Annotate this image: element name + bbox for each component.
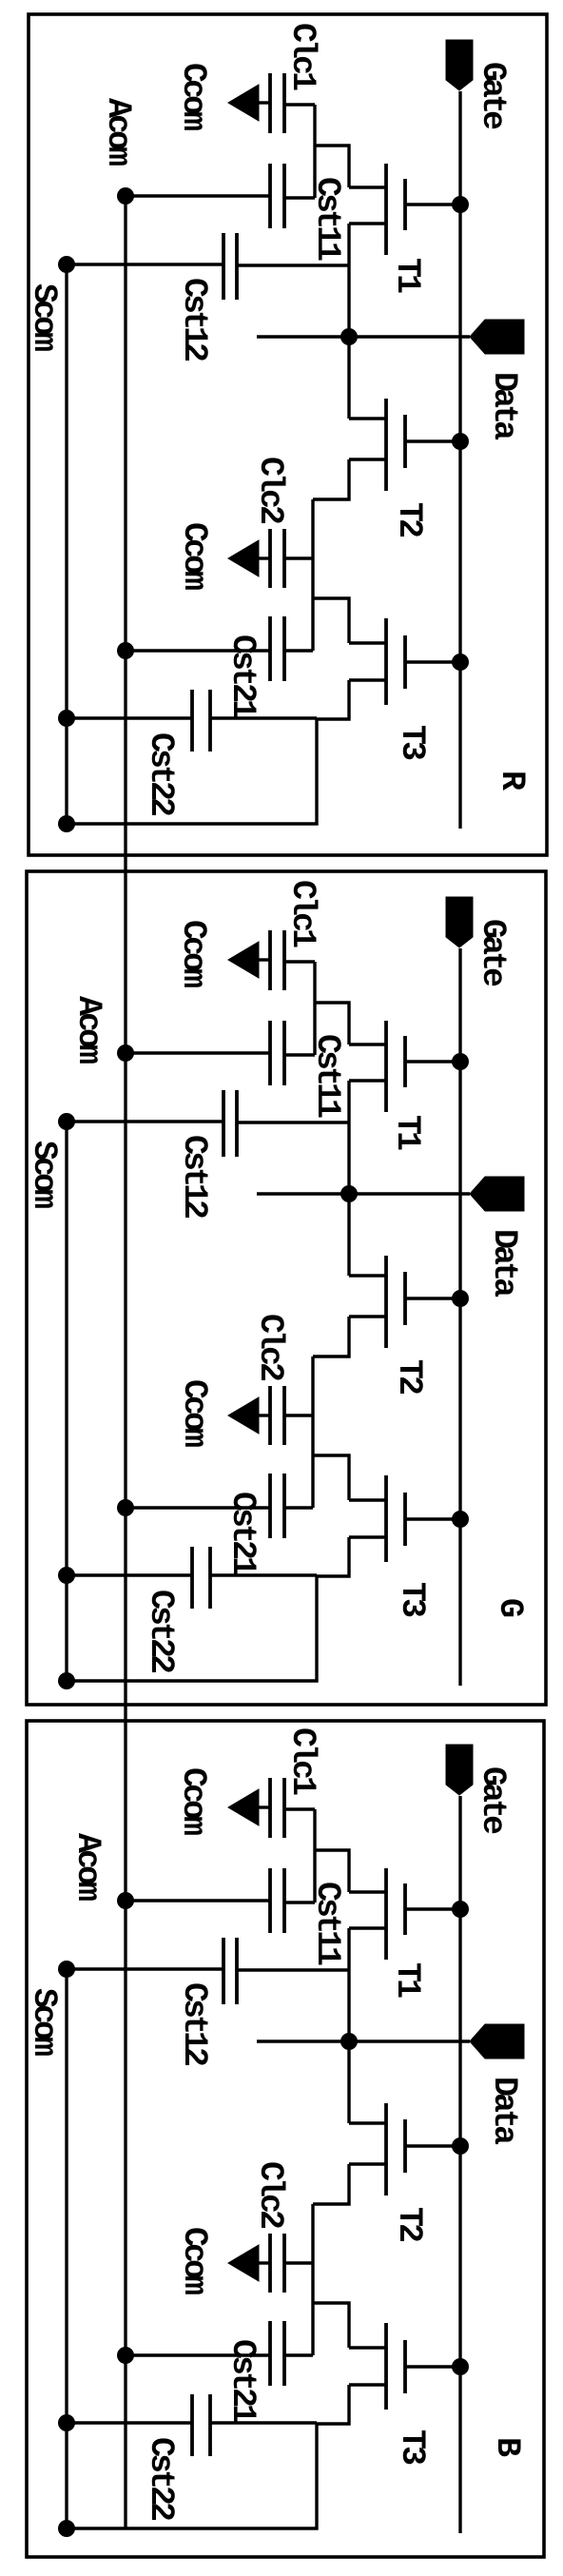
transistor T2 (block G): drain stub (349, 1315, 386, 1317)
svg-text:Ccom: Ccom (175, 522, 213, 590)
node: T3 gate junction dot (block B) (452, 2358, 469, 2375)
capacitor Cst22 (block B) (208, 2394, 212, 2456)
svg-text:Cst21: Cst21 (223, 634, 262, 718)
wire: Scom rail block R (65, 264, 68, 824)
node: T3 gate junction dot (block G) (452, 1511, 469, 1528)
svg-text:Ccom: Ccom (174, 63, 212, 130)
transistor T2 (block R): gate electrode bar (403, 415, 407, 468)
transistor T3 (block B): channel bar (384, 2323, 388, 2410)
Ccom arrow under Clc2 (block R) (228, 540, 259, 576)
svg-text:Cst11: Cst11 (308, 1034, 346, 1118)
node: T3-Scom dot (block B) (58, 2520, 75, 2537)
svg-text:Cst11: Cst11 (308, 1882, 346, 1965)
transistor T2 (block B): gate lead (405, 2144, 460, 2147)
transistor T2 (block B): drain stub (349, 2162, 386, 2165)
wire: stub to Cst21 (block G) (284, 1506, 313, 1509)
transistor T3 (block B): gate electrode bar (403, 2340, 407, 2393)
node: Cst21-Acom dot (block B) (117, 2347, 134, 2364)
svg-text:Gate: Gate (474, 1766, 512, 1834)
transistor T2 (block G): gate electrode bar (403, 1272, 407, 1325)
wire: stub to Clc2 (block B) (284, 2261, 313, 2264)
wire: stub to Cst11 (block R) (284, 196, 315, 199)
capacitor Clc1 (block R) (282, 73, 286, 133)
wire: Data line (block B) (257, 2039, 470, 2042)
node: Cst12-Scom dot (block R) (58, 256, 75, 273)
svg-text:T3: T3 (393, 2430, 431, 2465)
transistor T1 (block G): gate electrode bar (403, 1036, 407, 1087)
wire: pixel node 1 rail (block G) (313, 962, 316, 1055)
node: T1 gate junction dot (block G) (452, 1053, 469, 1070)
wire: stub to Clc1 (block G) (284, 960, 315, 963)
svg-text:Clc2: Clc2 (251, 457, 289, 523)
wire: Cst21 to Acom (block G) (126, 1506, 270, 1509)
wire: bus to Cst12 (block R) (237, 263, 349, 266)
transistor T3 (block R): drain stub (349, 678, 386, 681)
wire: Gate line (block G) (458, 948, 461, 1686)
capacitor Cst11 (block R) (282, 164, 286, 228)
wire: T3 drain to Cst22 (block B) (210, 2421, 317, 2424)
wire: T3 drain to Cst22 (block R) (210, 716, 317, 719)
svg-text:Data: Data (485, 1229, 523, 1298)
wire: T3 source to pixel node 2 (block R) (313, 598, 349, 643)
wire: bus to Cst12 (block B) (237, 1968, 349, 1971)
wire: Clc1 to Ccom arrow (block B) (258, 1805, 270, 1808)
wire: Cst12 to Scom (block G) (67, 1120, 223, 1122)
wire: pixel node 2 trunk (block G) (311, 1356, 314, 1508)
wire: T1 source to pixel node 1 (block B) (315, 1850, 349, 1892)
svg-text:B: B (488, 2437, 526, 2457)
svg-text:Cst12: Cst12 (175, 278, 213, 361)
Data input tag (block R) (470, 320, 524, 354)
Ccom arrow under Clc1 (block R) (228, 85, 259, 121)
wire: Cst22 to Scom (block G) (67, 1573, 192, 1576)
wire: stub to Clc1 (block B) (284, 1807, 315, 1810)
svg-text:T1: T1 (388, 258, 426, 293)
wire: T1 drain to T2 source bus (block G) (347, 1081, 350, 1276)
capacitor Cst12 (block R) (235, 233, 239, 300)
wire: T3 drain to Cst22 (block G) (210, 1573, 317, 1576)
svg-text:R: R (493, 771, 531, 790)
transistor T3 (block B): drain stub (349, 2383, 386, 2386)
node: Cst11-Acom dot (block B) (117, 1892, 134, 1909)
wire: Gate line (block R) (458, 91, 461, 829)
wire: Data line (block G) (257, 1192, 470, 1195)
node: Data junction dot (block R) (340, 328, 358, 345)
wire: Data line (block R) (257, 335, 470, 338)
capacitor Cst12 (block B) (235, 1938, 239, 2004)
transistor T3 (block G): drain stub (349, 1535, 386, 1538)
capacitor Cst11 (block B) (282, 1868, 286, 1933)
transistor T2 (block B): channel bar (384, 2103, 388, 2195)
wire: T2 drain to pixel node 2 (block B) (313, 2164, 349, 2204)
transistor T3 (block B): source stub (349, 2346, 386, 2349)
node: Cst21-Acom dot (block G) (117, 1499, 134, 1516)
wire: pixel node 2 trunk (block B) (311, 2204, 314, 2355)
transistor T1 (block B): source stub (349, 1890, 386, 1893)
wire: pixel node 2 trunk (block R) (311, 499, 314, 651)
wire: stub to Clc2 (block R) (284, 556, 313, 559)
capacitor Cst21 (block R) (282, 616, 286, 681)
wire: Cst11 to Acom (block B) (126, 1899, 270, 1902)
node: T1 gate junction dot (block R) (452, 196, 469, 213)
wire: bus to Cst12 (block G) (237, 1121, 349, 1123)
svg-text:Scom: Scom (25, 1988, 63, 2056)
wire: T3 drain to Scom (block B) (67, 2385, 349, 2528)
wire: Clc2 to Ccom arrow (block B) (258, 2261, 270, 2264)
transistor T3 (block R): channel bar (384, 618, 388, 705)
wire: T1 drain to T2 source bus (block B) (347, 1928, 350, 2123)
svg-text:Gate: Gate (474, 919, 512, 986)
wire: T1 source to pixel node 1 (block R) (315, 146, 349, 187)
svg-text:Acom: Acom (99, 98, 137, 166)
svg-text:Gate: Gate (474, 62, 512, 129)
transistor T3 (block R): gate lead (405, 660, 460, 663)
wire: Cst11 to Acom (block G) (126, 1051, 270, 1054)
svg-text:T1: T1 (388, 1115, 426, 1150)
transistor T1 (block R): gate electrode bar (403, 179, 407, 230)
svg-text:Acom: Acom (69, 996, 107, 1064)
capacitor Cst11 (block G) (282, 1021, 286, 1085)
transistor T1 (block R): channel bar (384, 164, 388, 255)
transistor T3 (block G): channel bar (384, 1475, 388, 1562)
Data input tag (block B) (470, 2024, 524, 2059)
capacitor Cst21 (block G) (282, 1473, 286, 1538)
wire: stub to Clc2 (block G) (284, 1414, 313, 1416)
wire: T2 drain to pixel node 2 (block R) (313, 459, 349, 499)
transistor T1 (block G): source stub (349, 1043, 386, 1045)
transistor T2 (block G): source stub (349, 1274, 386, 1277)
Ccom arrow under Clc2 (block B) (228, 2245, 259, 2281)
transistor T1 (block R): drain stub (349, 222, 386, 224)
Gate input tag (block B) (446, 1745, 473, 1795)
transistor T1 (block B): gate electrode bar (403, 1883, 407, 1935)
wire: Cst21 to Acom (block B) (126, 2353, 270, 2356)
svg-text:Cst21: Cst21 (223, 1492, 262, 1575)
wire: pixel node 1 rail (block B) (313, 1809, 316, 1903)
svg-text:Cst22: Cst22 (142, 732, 180, 815)
transistor T3 (block B): gate lead (405, 2365, 460, 2368)
svg-text:Cst21: Cst21 (223, 2339, 262, 2423)
node: Cst22-Scom dot (block B) (58, 2414, 75, 2431)
wire: T3 source to pixel node 2 (block G) (313, 1455, 349, 1500)
wire: Scom rail block B (65, 1968, 68, 2528)
node: Cst11-Acom dot (block R) (117, 187, 134, 205)
transistor T1 (block G): gate lead (405, 1060, 460, 1063)
wire: stub to Cst21 (block B) (284, 2353, 313, 2356)
capacitor Clc1 (block B) (282, 1778, 286, 1838)
svg-text:T2: T2 (390, 2207, 428, 2241)
wire: T3 drain to Scom (block R) (67, 680, 349, 824)
transistor T1 (block B): gate lead (405, 1907, 460, 1910)
Gate input tag (block G) (446, 897, 473, 947)
transistor T1 (block R): gate lead (405, 203, 460, 205)
node: Data junction dot (block B) (340, 2033, 358, 2050)
wire: Scom rail block G (65, 1122, 68, 1681)
transistor T3 (block G): source stub (349, 1498, 386, 1501)
wire: Clc2 to Ccom arrow (block G) (258, 1414, 270, 1416)
wire: Cst12 to Scom (block B) (67, 1967, 223, 1970)
svg-text:Clc2: Clc2 (251, 2161, 289, 2228)
svg-text:Scom: Scom (25, 283, 63, 351)
node: Data junction dot (block G) (340, 1185, 358, 1202)
svg-text:T3: T3 (393, 725, 431, 760)
wire: T1 source to pixel node 1 (block G) (315, 1003, 349, 1044)
node: T3-Scom dot (block G) (58, 1672, 75, 1689)
svg-text:Ccom: Ccom (175, 1379, 213, 1447)
node: T3 gate junction dot (block R) (452, 654, 469, 671)
wire: Clc1 to Ccom arrow (block G) (258, 958, 270, 961)
wire: Cst11 to Acom (block R) (126, 194, 270, 197)
transistor T2 (block B): source stub (349, 2121, 386, 2124)
svg-text:Data: Data (485, 2077, 523, 2145)
wire: T3 source to pixel node 2 (block B) (313, 2303, 349, 2348)
Data input tag (block G) (470, 1177, 524, 1211)
transistor T1 (block B): drain stub (349, 1926, 386, 1929)
transistor T2 (block G): gate lead (405, 1297, 460, 1299)
svg-text:T2: T2 (390, 1359, 428, 1394)
capacitor Cst21 (block B) (282, 2321, 286, 2386)
svg-text:G: G (491, 1598, 529, 1617)
transistor T3 (block G): gate lead (405, 1517, 460, 1520)
transistor T1 (block R): source stub (349, 185, 386, 188)
svg-text:T1: T1 (388, 1962, 426, 1998)
capacitor Clc2 (block R) (282, 529, 286, 588)
svg-text:Clc1: Clc1 (283, 880, 321, 947)
transistor T2 (block R): gate lead (405, 439, 460, 442)
capacitor Clc1 (block G) (282, 930, 286, 990)
svg-text:Cst11: Cst11 (308, 177, 346, 261)
svg-text:Ccom: Ccom (175, 2227, 213, 2294)
node: Cst21-Acom dot (block R) (117, 642, 134, 659)
wire: Cst12 to Scom (block R) (67, 263, 223, 265)
wire: T1 drain to T2 source bus (block R) (347, 224, 350, 419)
border box of block R (29, 14, 547, 855)
capacitor Cst12 (block G) (235, 1090, 239, 1157)
transistor T3 (block R): gate electrode bar (403, 635, 407, 689)
wire: stub to Cst11 (block G) (284, 1053, 315, 1056)
svg-text:Ccom: Ccom (174, 1767, 212, 1835)
node: T1 gate junction dot (block B) (452, 1901, 469, 1918)
node: Cst22-Scom dot (block R) (58, 710, 75, 727)
svg-text:Acom: Acom (68, 1833, 107, 1901)
svg-text:Clc1: Clc1 (283, 23, 321, 90)
node: T2 gate junction dot (block G) (452, 1290, 469, 1307)
node: Cst22-Scom dot (block G) (58, 1567, 75, 1584)
wire: pixel node 1 rail (block R) (313, 105, 316, 198)
svg-text:Data: Data (485, 372, 523, 440)
transistor T3 (block R): source stub (349, 641, 386, 644)
svg-text:T3: T3 (393, 1582, 431, 1617)
transistor T2 (block R): drain stub (349, 458, 386, 460)
wire: Gate line (block B) (458, 1796, 461, 2533)
capacitor Clc2 (block B) (282, 2234, 286, 2293)
wire: Cst22 to Scom (block B) (67, 2421, 192, 2424)
node: T2 gate junction dot (block B) (452, 2137, 469, 2155)
Ccom arrow under Clc2 (block G) (228, 1397, 259, 1434)
transistor T2 (block R): source stub (349, 417, 386, 420)
transistor T2 (block R): channel bar (384, 399, 388, 491)
node: T3-Scom dot (block R) (58, 815, 75, 832)
capacitor Clc2 (block G) (282, 1386, 286, 1445)
node: Cst12-Scom dot (block G) (58, 1113, 75, 1130)
Gate input tag (block R) (446, 40, 473, 90)
svg-text:Scom: Scom (25, 1141, 63, 1208)
wire: T3 drain to Scom (block G) (67, 1537, 349, 1681)
node: Cst12-Scom dot (block B) (58, 1961, 75, 1978)
wire: Clc1 to Ccom arrow (block R) (258, 101, 270, 104)
svg-text:Cst12: Cst12 (175, 1135, 213, 1218)
Ccom arrow under Clc1 (block B) (228, 1789, 259, 1825)
wire: Acom rail across all blocks (124, 196, 126, 2528)
svg-text:Clc2: Clc2 (251, 1314, 289, 1380)
transistor T1 (block G): drain stub (349, 1079, 386, 1082)
wire: T2 drain to pixel node 2 (block G) (313, 1317, 349, 1356)
border box of block B (27, 1721, 544, 2557)
border box of block G (27, 871, 546, 1705)
capacitor Cst22 (block G) (208, 1547, 212, 1609)
transistor T1 (block G): channel bar (384, 1021, 388, 1112)
wire: stub to Cst21 (block R) (284, 649, 313, 652)
transistor T1 (block B): channel bar (384, 1868, 388, 1960)
wire: stub to Cst11 (block B) (284, 1901, 315, 1903)
svg-text:Cst12: Cst12 (175, 1982, 213, 2065)
wire: Cst22 to Scom (block R) (67, 716, 192, 719)
node: T2 gate junction dot (block R) (452, 433, 469, 450)
Ccom arrow under Clc1 (block G) (228, 942, 259, 978)
svg-text:Ccom: Ccom (174, 920, 212, 987)
wire: Clc2 to Ccom arrow (block R) (258, 556, 270, 559)
wire: stub to Clc1 (block R) (284, 103, 315, 106)
transistor T2 (block B): gate electrode bar (403, 2119, 407, 2173)
svg-text:Clc1: Clc1 (283, 1727, 321, 1795)
transistor T2 (block G): channel bar (384, 1256, 388, 1348)
svg-text:Cst22: Cst22 (142, 2437, 180, 2520)
capacitor Cst22 (block R) (208, 690, 212, 751)
svg-text:Cst22: Cst22 (142, 1590, 180, 1672)
transistor T3 (block G): gate electrode bar (403, 1493, 407, 1546)
svg-text:T2: T2 (390, 502, 428, 537)
wire: Cst21 to Acom (block R) (126, 649, 270, 652)
node: Cst11-Acom dot (block G) (117, 1044, 134, 1062)
